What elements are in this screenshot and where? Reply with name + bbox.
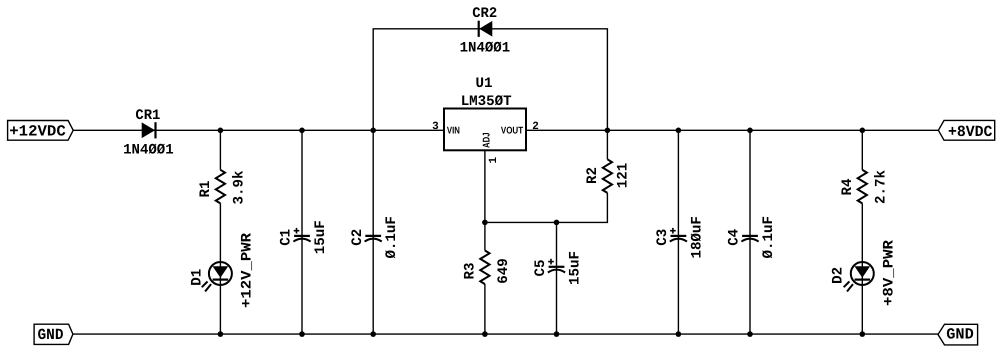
- port GND right: [938, 324, 978, 345]
- wire bottom GND rail: [73, 333, 938, 335]
- diode CR1: [123, 108, 174, 158]
- svg-text:LM35ØT: LM35ØT: [461, 94, 512, 110]
- junction dot main wire / R1 column: [218, 128, 224, 134]
- junction dot GND rail / C2 column: [370, 331, 376, 337]
- port +8VDC: [938, 120, 994, 141]
- capacitor C5: [533, 251, 583, 285]
- svg-text:1N4ØØ1: 1N4ØØ1: [460, 40, 511, 56]
- svg-text:15uF: 15uF: [568, 251, 584, 285]
- svg-text:C2: C2: [350, 229, 366, 246]
- svg-text:121: 121: [615, 162, 631, 188]
- capacitor C2: [350, 216, 400, 258]
- wire top CR2 branch: [373, 29, 607, 131]
- svg-text:GND: GND: [38, 326, 64, 344]
- svg-text:CR1: CR1: [135, 108, 160, 124]
- svg-text:15uF: 15uF: [313, 220, 329, 254]
- wire ADJ net: [485, 150, 608, 222]
- svg-text:D1: D1: [190, 268, 206, 285]
- junction dot GND rail / C5 column: [554, 331, 560, 337]
- port +12VDC: [8, 121, 74, 141]
- svg-text:1: 1: [488, 157, 500, 164]
- capacitor C4: [727, 216, 777, 258]
- LED D1: [190, 233, 256, 308]
- junction dot main wire / C1 column: [299, 128, 305, 134]
- resistor R1: [198, 170, 247, 205]
- svg-text:C4: C4: [727, 229, 743, 246]
- svg-text:GND: GND: [946, 326, 974, 344]
- wire C1 column: [301, 130, 303, 334]
- junction dot GND rail / C1 column: [299, 331, 305, 337]
- wire R2 upper stub: [606, 130, 608, 159]
- svg-text:CR2: CR2: [472, 6, 497, 22]
- resistor R2: [585, 159, 631, 193]
- wire C2 column: [372, 130, 374, 334]
- svg-text:C3: C3: [655, 229, 671, 246]
- svg-text:3: 3: [432, 121, 439, 133]
- svg-text:2: 2: [532, 121, 539, 133]
- junction dot GND rail / R1 column: [218, 331, 224, 337]
- wire R1/D1 column: [219, 130, 221, 170]
- resistor R4: [840, 170, 889, 204]
- resistor R3: [463, 251, 512, 285]
- wire main right segment: [526, 129, 938, 131]
- svg-text:3.9k: 3.9k: [231, 170, 247, 204]
- svg-text:VIN: VIN: [447, 126, 460, 137]
- wire R3 lower stub: [484, 284, 486, 334]
- svg-text:U1: U1: [476, 76, 493, 92]
- junction dot GND rail / C4 column: [747, 331, 753, 337]
- svg-text:R2: R2: [585, 167, 601, 184]
- junction dot main wire / C3 column: [676, 128, 682, 134]
- junction dot main wire / R2 column: [605, 128, 611, 134]
- svg-text:R1: R1: [198, 180, 214, 197]
- svg-text:649: 649: [496, 258, 512, 284]
- junction dot GND rail / R4 column: [860, 331, 866, 337]
- svg-text:VOUT: VOUT: [501, 126, 523, 137]
- svg-text:+8VDC: +8VDC: [948, 123, 993, 141]
- svg-text:1N4ØØ1: 1N4ØØ1: [123, 142, 174, 158]
- wire C3 column: [677, 130, 679, 334]
- svg-text:ADJ: ADJ: [481, 132, 492, 148]
- junction dot ADJ net / R3 column: [482, 220, 488, 226]
- svg-text:C5: C5: [533, 260, 549, 277]
- svg-text:Ø.1uF: Ø.1uF: [761, 216, 777, 258]
- svg-text:+12V_PWR: +12V_PWR: [239, 233, 255, 308]
- junction dot GND rail / R3 column: [482, 331, 488, 337]
- svg-text:R3: R3: [463, 263, 479, 280]
- junction dot GND rail / C3 column: [676, 331, 682, 337]
- capacitor C1: [279, 220, 329, 254]
- wire R3 upper stub: [484, 222, 486, 250]
- wire C4 column: [749, 130, 751, 334]
- svg-text:+12VDC: +12VDC: [9, 123, 66, 141]
- LED D2: [830, 240, 897, 306]
- wire C5 column: [556, 222, 558, 334]
- diode CR2: [460, 6, 511, 56]
- junction dot main wire / R4 column: [860, 128, 866, 134]
- junction dot main wire / C2 column: [370, 128, 376, 134]
- svg-text:+8V_PWR: +8V_PWR: [881, 240, 897, 306]
- junction dot main wire / C4 column: [747, 128, 753, 134]
- svg-text:Ø.1uF: Ø.1uF: [384, 216, 400, 258]
- svg-text:D2: D2: [830, 267, 846, 284]
- svg-text:2.7k: 2.7k: [873, 170, 889, 204]
- svg-text:R4: R4: [840, 178, 856, 195]
- wire R4/D2 column: [861, 130, 863, 170]
- wire main left segment: [73, 129, 444, 131]
- svg-text:18ØuF: 18ØuF: [689, 216, 705, 258]
- junction dot ADJ net / C5 column: [554, 220, 560, 226]
- op-amp regulator U1 LM350T: [432, 76, 539, 164]
- capacitor C3: [655, 216, 705, 258]
- svg-text:C1: C1: [279, 229, 295, 246]
- port GND left: [34, 324, 73, 344]
